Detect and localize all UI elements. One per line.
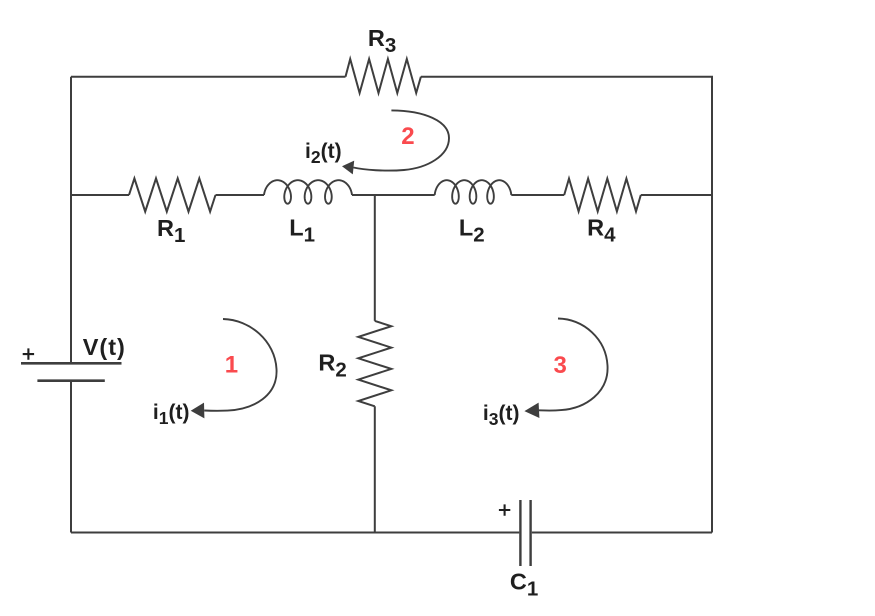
svg-text:i1(t): i1(t)	[153, 401, 190, 428]
svg-text:i3(t): i3(t)	[483, 402, 520, 429]
svg-text:2: 2	[401, 123, 414, 150]
svg-text:3: 3	[554, 352, 567, 379]
svg-text:i2(t): i2(t)	[305, 140, 342, 167]
svg-text:V(t): V(t)	[83, 334, 126, 360]
svg-text:1: 1	[225, 351, 238, 378]
